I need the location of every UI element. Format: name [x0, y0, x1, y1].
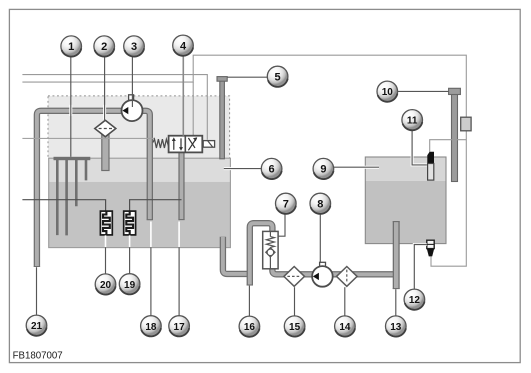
callout 9 — [313, 158, 334, 179]
svg-text:FB1807007: FB1807007 — [13, 350, 63, 361]
wire: left to element 20 — [22, 200, 105, 211]
pipe: riser to relief valve, with stub for 16 — [247, 223, 397, 285]
callout 3 — [124, 36, 145, 57]
callout 10 — [377, 81, 398, 102]
filler tube 10 with cap — [449, 88, 461, 181]
svg-text:18: 18 — [145, 322, 157, 333]
svg-text:21: 21 — [31, 321, 43, 332]
callout 16 — [239, 316, 260, 337]
svg-text:17: 17 — [174, 322, 186, 333]
svg-text:1: 1 — [68, 41, 74, 53]
solenoid valve 4 (2-position directional valve with spring) — [153, 136, 215, 153]
pipe: filter suction tube (below item 2) — [102, 132, 109, 171]
leader 9 — [334, 166, 379, 169]
leader 20 — [105, 235, 107, 273]
wire: element 19 to pipe 17 — [130, 200, 182, 211]
pipe 13: riser into right tank — [393, 221, 400, 288]
wire: connector down to bleed valve 12 — [431, 131, 466, 266]
check diamond 15 — [284, 267, 305, 287]
check diamond 14 — [337, 267, 358, 287]
leader 7 — [278, 214, 285, 236]
dashed enclosure box — [48, 96, 230, 159]
svg-text:4: 4 — [180, 40, 187, 52]
svg-text:8: 8 — [317, 199, 323, 211]
callout 5 — [267, 66, 288, 87]
relief valve 7 — [263, 231, 278, 268]
callout 13 — [386, 316, 407, 337]
pipe: tank outlet to pump line (via 16) — [223, 237, 250, 274]
leader 5 — [227, 76, 267, 78]
callout 7 — [276, 193, 297, 214]
leader 19 — [129, 235, 131, 273]
leader 8 — [319, 214, 321, 262]
callout 11 — [402, 110, 423, 131]
svg-text:7: 7 — [283, 199, 289, 211]
wire: upper left to solenoid of valve 4 — [22, 75, 207, 140]
leader 21 — [36, 267, 38, 315]
callout 15 — [284, 316, 305, 337]
leader 11 — [412, 130, 427, 165]
svg-text:6: 6 — [269, 164, 275, 176]
pump 3 (circle with arrow and nub) — [122, 95, 143, 121]
svg-text:2: 2 — [101, 41, 107, 53]
bleed valve 12 — [427, 240, 434, 256]
svg-text:14: 14 — [339, 322, 351, 333]
wire: second left wire up over to right-side connector — [22, 55, 466, 117]
pipe: return line 21 + top run + pump drop 18 — [34, 111, 153, 267]
callout 19 — [119, 274, 140, 295]
leader 3 — [131, 56, 133, 107]
leader 14 — [344, 287, 346, 316]
callout 4 — [173, 35, 194, 56]
wire: left to valve spring — [22, 137, 154, 139]
svg-text:12: 12 — [409, 295, 421, 306]
leader 2 — [103, 56, 106, 120]
leader 6 — [224, 167, 261, 170]
callout 1 — [61, 36, 82, 57]
svg-text:10: 10 — [382, 87, 394, 98]
leader 13 — [395, 289, 397, 316]
callout 8 — [310, 193, 331, 214]
heater element 20 — [100, 211, 112, 235]
pipe: valve outlet drop 17 — [178, 152, 184, 220]
callout circles — [26, 35, 425, 337]
leader 15 — [294, 287, 296, 316]
svg-text:11: 11 — [407, 116, 418, 127]
callout 2 — [94, 36, 115, 57]
svg-text:9: 9 — [320, 164, 326, 176]
svg-text:19: 19 — [124, 280, 136, 291]
callout 18 — [141, 316, 162, 337]
vent tube 5 with cap — [217, 77, 227, 159]
svg-text:5: 5 — [275, 72, 281, 84]
callout 20 — [95, 274, 116, 295]
left reservoir tank — [49, 158, 231, 247]
leader 12 — [414, 245, 426, 289]
svg-text:16: 16 — [244, 322, 256, 333]
leader 17 — [178, 222, 180, 316]
heater element 19 — [124, 211, 136, 235]
wire: valve 4 top feed — [192, 82, 194, 136]
callout 14 — [335, 316, 356, 337]
svg-text:13: 13 — [390, 322, 402, 333]
level sensor 11 — [427, 152, 434, 180]
leader 4 — [182, 54, 184, 136]
wire: sensor 11 to connector line — [430, 140, 467, 152]
suction strainer comb (item 1) — [54, 157, 91, 236]
pump 8 (circle with arrow and nub) — [312, 262, 333, 286]
leader 18 — [150, 222, 152, 316]
callout 6 — [261, 158, 282, 179]
callout 12 — [404, 289, 425, 310]
callout 21 — [26, 315, 47, 336]
filter 2 (diamond) — [95, 120, 116, 136]
connector block — [461, 117, 471, 131]
right reservoir tank — [365, 157, 446, 244]
leader 10 — [398, 90, 449, 92]
svg-text:20: 20 — [100, 280, 112, 291]
svg-text:3: 3 — [131, 41, 137, 53]
leader 16 — [248, 286, 250, 316]
leader 1 — [69, 56, 72, 156]
svg-text:15: 15 — [289, 322, 301, 333]
callout 17 — [169, 316, 190, 337]
